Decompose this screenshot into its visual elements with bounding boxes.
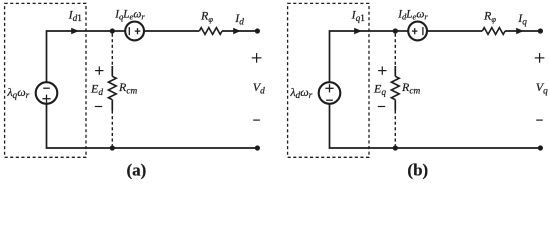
wire: controlled source to resistor (b)	[427, 30, 482, 32]
wire: top node to controlled source (b)	[395, 30, 408, 32]
svg-text:(b): (b)	[407, 160, 428, 179]
wire: Rcm upper lead (a)	[111, 66, 113, 76]
node: top junction (b)	[393, 28, 398, 33]
resistor Rcm (a)	[108, 76, 116, 99]
terminal node bottom right (a)	[255, 145, 260, 150]
resistor Rφ (b)	[482, 28, 505, 35]
polarity minus of Ed (a)	[95, 106, 102, 108]
terminal node top right (a)	[255, 28, 260, 33]
node: bottom junction (a)	[110, 145, 115, 150]
wire: Rcm lower lead (a)	[111, 100, 113, 111]
svg-text:(a): (a)	[126, 160, 146, 179]
voltage source λqωr (a)	[36, 82, 58, 104]
terminal node top right (b)	[538, 28, 543, 33]
polarity plus of Eq (b)	[378, 66, 386, 74]
polarity minus of Eq (b)	[378, 106, 385, 108]
node: top junction (a)	[110, 28, 115, 33]
wire: source bottom to bottom-right terminal (a)	[47, 104, 258, 148]
wire: source top to top node (b)	[330, 31, 396, 82]
wire: source bottom to bottom-right terminal (b)	[330, 104, 541, 148]
node: bottom junction (b)	[393, 145, 398, 150]
current arrow Id (a)	[233, 28, 240, 34]
wire: source top to top node (a)	[47, 31, 113, 82]
wire: controlled source to resistor (a)	[144, 30, 199, 32]
wire (dashed) Rcm to bottom node (b)	[394, 111, 396, 146]
voltage source λdωr (b)	[319, 82, 341, 104]
polarity minus of Vd (a)	[253, 119, 260, 121]
wire: Rcm upper lead (b)	[394, 66, 396, 76]
controlled voltage source IdLeωr (b)	[408, 22, 427, 41]
terminal node bottom right (b)	[538, 145, 543, 150]
dashed box enclosing speed-voltage source (b)	[288, 3, 369, 157]
wire (dashed) top node to Rcm (b)	[394, 34, 396, 66]
wire (dashed) Rcm to bottom node (a)	[111, 111, 113, 146]
polarity plus of Vd (a)	[252, 53, 262, 63]
wire (dashed) top node to Rcm (a)	[111, 34, 113, 66]
dashed box enclosing speed-voltage source (a)	[5, 3, 86, 157]
controlled voltage source IqLeωr (a)	[125, 22, 144, 41]
polarity plus of Ed (a)	[95, 66, 103, 74]
current arrow Iq1 (b)	[354, 28, 362, 34]
resistor Rcm (b)	[391, 76, 399, 99]
current arrow Iq (b)	[516, 28, 523, 34]
polarity plus of Vq (b)	[535, 53, 545, 63]
polarity minus of Vq (b)	[536, 119, 543, 121]
wire: top node to controlled source (a)	[112, 30, 125, 32]
current arrow Id1 (a)	[71, 28, 79, 34]
resistor Rφ (a)	[199, 28, 222, 35]
wire: resistor to output terminal (a)	[222, 30, 257, 32]
wire: resistor to output terminal (b)	[505, 30, 540, 32]
wire: Rcm lower lead (b)	[394, 100, 396, 111]
